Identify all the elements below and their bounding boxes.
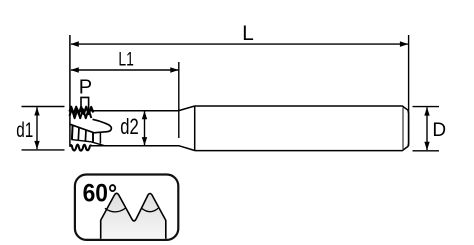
shank start edge [194,106,196,151]
tooth flank line 5 [99,132,101,143]
svg-text:L1: L1 [118,49,134,70]
shank outline [195,106,409,151]
tooth flank line 3 [84,130,87,141]
right extension line of L [408,35,410,146]
detail box [75,175,178,240]
tooth flank line 2 [77,127,80,140]
dimension line L [71,43,408,45]
thread zigzag top row B [70,109,92,119]
left peak angle arc [105,208,126,212]
right peak angle arc [141,208,158,212]
dimension d1 arrow [36,107,38,149]
svg-text:L: L [242,22,254,45]
svg-text:P: P [79,77,92,99]
svg-text:60°: 60° [83,180,118,208]
head bottom root line [72,140,105,146]
dimension d1 bottom extension [22,149,65,151]
dimension line L1 [71,69,178,71]
dimension D bottom extension [413,150,440,152]
shank end facet line [402,108,404,150]
thread zigzag top row A [70,107,94,114]
left extension line / tool front face [69,35,71,146]
neck top edge [90,110,179,112]
dimension d1 top extension [22,106,65,108]
flute [70,119,112,133]
pitch marker P bracket [81,97,89,112]
thread profile in detail box [101,193,166,239]
svg-text:d1: d1 [16,119,33,142]
thread zigzag bottom row [70,145,91,151]
svg-text:d2: d2 [120,114,139,139]
tooth flank line 1 [71,125,74,140]
dimension d2 arrow [144,111,146,145]
dimension D top extension [413,106,440,108]
taper top edge [179,106,195,111]
dimension D arrow [426,107,428,150]
taper bottom edge [179,146,195,151]
neck bottom edge [91,145,179,147]
svg-text:D: D [432,120,446,141]
tooth flank line 4 [92,133,94,142]
right extension line of L1 [178,62,180,138]
